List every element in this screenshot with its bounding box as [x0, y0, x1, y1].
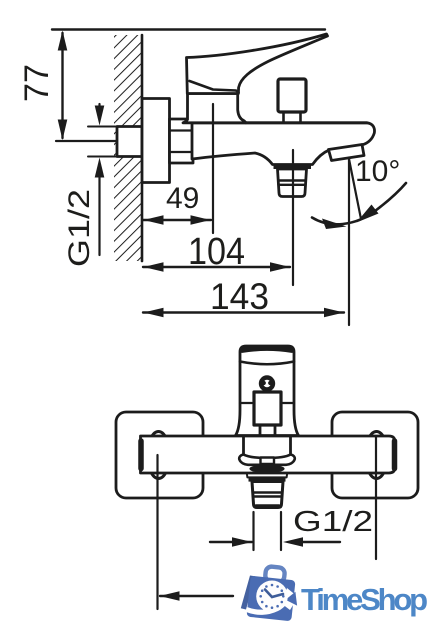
- angle arrow left: [322, 219, 347, 230]
- arrow 49 right: [191, 215, 211, 225]
- indicator dot right: [268, 381, 272, 385]
- diverter knob: [278, 79, 306, 112]
- G1/2 dim line upper: [98, 104, 100, 108]
- left union ellipse: [148, 432, 170, 479]
- svg-text:G1/2: G1/2: [63, 189, 96, 267]
- pipe centerline: [56, 140, 157, 142]
- handle column front: [236, 346, 299, 436]
- faucet body side view: [192, 123, 374, 165]
- handle curve line: [240, 362, 294, 365]
- arrow 49 left: [144, 215, 164, 225]
- bar left end cap: [138, 441, 144, 469]
- svg-text:49: 49: [166, 182, 199, 215]
- G1/2 dim line left tail: [210, 541, 252, 543]
- wall face line upper: [141, 35, 144, 99]
- svg-text:77: 77: [18, 64, 56, 102]
- left escutcheon centerline: [156, 455, 158, 609]
- clock hands: [265, 590, 283, 598]
- shower connector body: [278, 169, 307, 197]
- neck line left: [259, 425, 262, 435]
- right escutcheon centerline: [375, 437, 377, 559]
- G1/2 dim line right tail: [301, 541, 340, 543]
- handle cap line: [190, 81, 239, 93]
- bar right end cap: [392, 441, 398, 469]
- svg-text:104: 104: [188, 231, 245, 273]
- body bar: [141, 436, 396, 473]
- wall face line lower: [141, 182, 144, 261]
- logo slash: [241, 576, 255, 610]
- aerator bottom thick: [256, 504, 279, 508]
- pipe extension tick top: [88, 126, 117, 128]
- svg-text:TimeShop: TimeShop: [301, 582, 428, 617]
- logo arrow head: [286, 592, 298, 606]
- cap tick right: [282, 402, 294, 404]
- logo bag handle: [265, 566, 285, 583]
- aerator ext line right: [280, 512, 282, 550]
- arrow G1/2 front left: [232, 537, 252, 547]
- arrow G1/2 down: [95, 106, 105, 126]
- cartridge housing: [183, 94, 246, 123]
- body top edge: [246, 121, 367, 124]
- indicator circle: [261, 378, 273, 390]
- shower connector flange: [274, 164, 312, 169]
- arrow 77 bottom: [58, 120, 68, 141]
- angle arrow right: [357, 205, 379, 223]
- cap tick left: [240, 402, 252, 404]
- pipe stub G1/2: [117, 127, 142, 157]
- pipe extension tick bottom: [88, 156, 117, 158]
- indicator dot left: [262, 381, 266, 385]
- spout inner rect: [261, 458, 275, 465]
- right union ellipse: [366, 432, 388, 479]
- neck line right: [274, 425, 277, 435]
- arrow 143 left: [144, 308, 164, 318]
- arrow G1/2 front right: [283, 537, 303, 547]
- logo arrow notch: [282, 588, 299, 610]
- clock ticks: [259, 584, 284, 609]
- handle lever: [187, 34, 328, 94]
- svg-text:G1/2: G1/2: [293, 506, 373, 538]
- G1/2 dim line lower: [98, 175, 100, 255]
- clock face: [256, 581, 288, 613]
- logo swoosh: [247, 604, 284, 612]
- connector centerline: [292, 150, 294, 285]
- spout outlet plate 10deg: [329, 145, 365, 161]
- spout holder front: [244, 437, 291, 455]
- top reference line: [52, 28, 325, 30]
- nut facet top: [170, 129, 194, 131]
- logo bag body: [246, 576, 295, 621]
- knob stem left: [282, 112, 285, 122]
- 10deg slanted line: [349, 159, 361, 219]
- bottom dimension arrow: [160, 591, 180, 601]
- arrow 143 right: [324, 308, 344, 318]
- dimension 77 line: [61, 33, 63, 138]
- left escutcheon: [116, 412, 203, 498]
- handle top cap thick: [242, 348, 292, 350]
- aerator line 1: [253, 491, 282, 493]
- dim 104 line: [143, 266, 290, 268]
- spout lower white band: [247, 473, 287, 477]
- lever front rect: [254, 392, 281, 425]
- dim 49 line: [143, 219, 211, 221]
- connector thread line 2: [279, 184, 306, 186]
- nut facet bottom: [170, 151, 194, 153]
- wall hatching: [114, 35, 142, 261]
- spout head front: [239, 455, 295, 465]
- knob stem right: [299, 112, 302, 122]
- angle rotation arc: [312, 183, 406, 224]
- svg-text:10°: 10°: [355, 155, 400, 188]
- hex nut: [170, 119, 194, 163]
- arrow G1/2 up: [95, 158, 105, 178]
- aerator ext line left: [252, 512, 254, 550]
- aerator line 2: [253, 495, 282, 497]
- arrow 77 top: [58, 31, 68, 51]
- connector thread line 1: [279, 179, 306, 181]
- spout dark strip: [249, 477, 286, 481]
- cartridge axis extension line: [212, 104, 214, 233]
- arrow 104 right: [270, 262, 290, 272]
- spout dark band: [249, 465, 284, 474]
- dim 143 line: [143, 311, 344, 313]
- bottom dimension line partial: [160, 595, 233, 597]
- right escutcheon: [332, 412, 418, 498]
- aerator front: [252, 482, 283, 508]
- svg-text:143: 143: [210, 276, 269, 317]
- arrow 104 left: [144, 262, 164, 272]
- spout tip vertical reference: [348, 159, 350, 325]
- flange escutcheon side: [142, 99, 170, 183]
